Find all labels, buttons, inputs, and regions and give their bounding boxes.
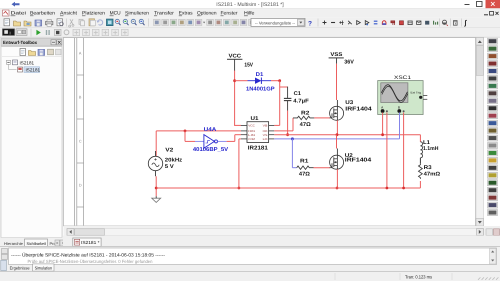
node U2/ground rail junction	[336, 187, 339, 190]
svg-text:20kHz: 20kHz	[165, 158, 183, 164]
wire V2 bottom to ground	[155, 176, 157, 196]
op-amp driver U1 IR2181	[247, 122, 269, 143]
svg-text:LIN: LIN	[248, 134, 255, 137]
wire scope A- to ground rail	[386, 113, 388, 189]
svg-text:1.1mH: 1.1mH	[423, 146, 438, 152]
svg-text:I: I	[10, 31, 11, 36]
wire scope A+ to VS rail	[382, 113, 384, 135]
instruments toolbar	[488, 38, 498, 44]
wire branch to C1	[280, 86, 288, 88]
svg-text:Ergebnisse: Ergebnisse	[10, 265, 31, 270]
wire R2 to U3 gate	[314, 117, 330, 119]
svg-text:1N4001GP: 1N4001GP	[246, 87, 275, 93]
svg-text:Sichtbarkeit: Sichtbarkeit	[27, 241, 47, 246]
wire junction down to U4A input	[184, 131, 186, 142]
wire VCC to U1 pin	[234, 124, 241, 126]
svg-text:36V: 36V	[344, 59, 354, 65]
svg-text:Entwurf-Toolbox: Entwurf-Toolbox	[3, 40, 37, 45]
ground	[152, 198, 161, 202]
wire VCC vertical	[234, 71, 236, 126]
svg-text:COM: COM	[248, 138, 255, 141]
svg-text:C1: C1	[294, 91, 301, 97]
svg-text:------ Überprüfe SPICE-Netzlis: ------ Überprüfe SPICE-Netzliste auf IS2…	[11, 251, 165, 258]
inductor L1 1.1mH	[420, 142, 422, 158]
svg-text:Hierarchie: Hierarchie	[4, 241, 24, 246]
wire scope B+ to LO rail (blue)	[399, 113, 401, 139]
svg-text:Ansicht: Ansicht	[60, 11, 78, 17]
wire D1 cathode to VB node	[271, 80, 280, 82]
wire U4A output to LIN	[227, 140, 235, 142]
svg-text:Fenster: Fenster	[221, 11, 238, 17]
transistor U3 IRF1404	[330, 106, 344, 120]
svg-text:IRF1404: IRF1404	[345, 107, 372, 113]
svg-text:D: D	[79, 184, 82, 188]
resistor R1 47ohm	[297, 166, 314, 169]
wire L1 to R3	[419, 158, 421, 164]
node COM/ground junction	[238, 187, 241, 190]
design toolbox panel	[0, 38, 63, 248]
node C1/VS junction	[286, 133, 289, 136]
node LO branch junction	[291, 137, 294, 140]
node A+/VS junction	[381, 133, 384, 136]
toolbar row 1	[0, 17, 500, 27]
svg-text:Datei: Datei	[11, 11, 26, 17]
wire U2 source to ground rail	[336, 169, 338, 188]
svg-text:MCU: MCU	[110, 11, 121, 17]
svg-text:IS2181: IS2181	[20, 61, 35, 66]
source V2 20kHz 5V	[148, 156, 162, 170]
wire COM to ground rail	[239, 138, 241, 140]
svg-text:4.7µF: 4.7µF	[293, 98, 309, 104]
svg-text:47mΩ: 47mΩ	[424, 171, 441, 177]
svg-text:Bearbeiten: Bearbeiten	[30, 11, 55, 17]
spreadsheet view	[0, 247, 500, 272]
sheet border	[74, 38, 76, 226]
node B-/ground junction	[402, 187, 405, 190]
svg-text:R1: R1	[300, 158, 308, 164]
svg-text:-- Verwendungsliste --: -- Verwendungsliste --	[255, 20, 296, 25]
svg-text:VSS: VSS	[330, 52, 342, 58]
node U3/VS junction	[336, 133, 339, 136]
menu bar	[0, 9, 500, 18]
svg-text:Simulieren: Simulieren	[125, 11, 149, 17]
svg-text:Prüfe auf SPICE-Netzlisten-Übe: Prüfe auf SPICE-Netzlisten-Übersetzungsf…	[28, 259, 153, 264]
toolbar row 2	[0, 28, 500, 37]
svg-text:IS2181 *: IS2181 *	[81, 240, 100, 245]
svg-text:IRF1404: IRF1404	[345, 158, 372, 164]
svg-text:?: ?	[308, 20, 312, 27]
svg-text:U4A: U4A	[204, 127, 217, 133]
wire HO to R2	[274, 130, 293, 132]
wire VS rail	[274, 134, 420, 136]
svg-text:Extras: Extras	[179, 11, 193, 17]
status bar	[0, 272, 500, 281]
wire VSS to U3 drain	[336, 64, 338, 100]
svg-text:Ext Trig: Ext Trig	[411, 90, 422, 94]
wire VS to U2 drain	[336, 135, 338, 149]
svg-text:R3: R3	[424, 165, 432, 171]
document tab bar	[63, 236, 500, 247]
node ground rail junction	[155, 187, 158, 190]
horizontal scrollbar	[64, 226, 500, 236]
wire ground rail	[156, 187, 420, 189]
wire C1 to VS rail	[287, 111, 289, 135]
svg-text:V2: V2	[165, 148, 173, 154]
resistor R2 47ohm	[293, 116, 314, 119]
wire U3 source to VS rail	[336, 120, 338, 134]
svg-text:VCC: VCC	[248, 125, 255, 128]
svg-text:IS2181 - Multisim - [IS2181 *]: IS2181 - Multisim - [IS2181 *]	[216, 2, 284, 8]
svg-text:B: B	[398, 105, 400, 109]
node A-/ground junction	[386, 187, 389, 190]
svg-text:IR2181: IR2181	[248, 145, 268, 151]
svg-text:IS2181: IS2181	[26, 67, 41, 72]
svg-text:Tran: 0.123 ms: Tran: 0.123 ms	[405, 274, 433, 279]
svg-text:Platzieren: Platzieren	[82, 11, 105, 17]
schematic canvas	[64, 38, 476, 227]
wire LO rail (blue)	[274, 138, 399, 140]
node U4A input junction	[184, 130, 187, 133]
title bar	[0, 0, 500, 9]
svg-text:XSC1: XSC1	[394, 75, 411, 81]
svg-text:VCC: VCC	[229, 54, 242, 60]
capacitor C1 4.7uF	[287, 87, 289, 99]
vertical scrollbar	[476, 38, 484, 227]
transistor U2 IRF1404	[330, 155, 344, 169]
resistor R3 47mohm	[419, 164, 423, 179]
node VB junction	[278, 79, 281, 82]
svg-text:Hilfe: Hilfe	[244, 11, 255, 17]
svg-text:Simulation: Simulation	[35, 265, 53, 270]
svg-text:15V: 15V	[244, 63, 253, 69]
svg-text:5 V: 5 V	[165, 164, 174, 170]
svg-text:U3: U3	[345, 100, 353, 106]
svg-text:47Ω: 47Ω	[300, 122, 312, 128]
diode D1 1N4001GP	[248, 78, 272, 84]
svg-text:HIN: HIN	[248, 130, 255, 133]
svg-text:VB: VB	[263, 125, 268, 128]
svg-text:40106BP_5V: 40106BP_5V	[193, 147, 228, 153]
wire LO branch down to R1 (blue)	[291, 139, 293, 168]
svg-text:D1: D1	[256, 72, 264, 78]
wire to D1 anode	[235, 80, 248, 82]
wire VB node down to U1 VB pin	[279, 81, 281, 126]
svg-text:A: A	[79, 52, 82, 56]
svg-text:Transfer: Transfer	[154, 11, 174, 17]
wire V2 top to HIN rail	[155, 131, 157, 156]
node VCC/D1 junction	[233, 79, 236, 82]
svg-text:B: B	[79, 96, 82, 100]
svg-text:R2: R2	[301, 110, 309, 116]
wire HIN rail	[156, 130, 241, 132]
schmitt inverter U4A 40106BP_5V	[195, 140, 204, 142]
wire R1 to U2 gate	[314, 167, 331, 169]
svg-text:Optionen: Optionen	[197, 11, 217, 17]
svg-text:47Ω: 47Ω	[299, 171, 311, 177]
svg-text:HO: HO	[263, 130, 268, 133]
svg-text:U1: U1	[251, 116, 259, 122]
svg-text:LO: LO	[263, 138, 268, 141]
svg-text:C: C	[79, 140, 82, 144]
svg-text:VS: VS	[263, 134, 268, 137]
wire scope B- to ground rail	[403, 113, 405, 189]
